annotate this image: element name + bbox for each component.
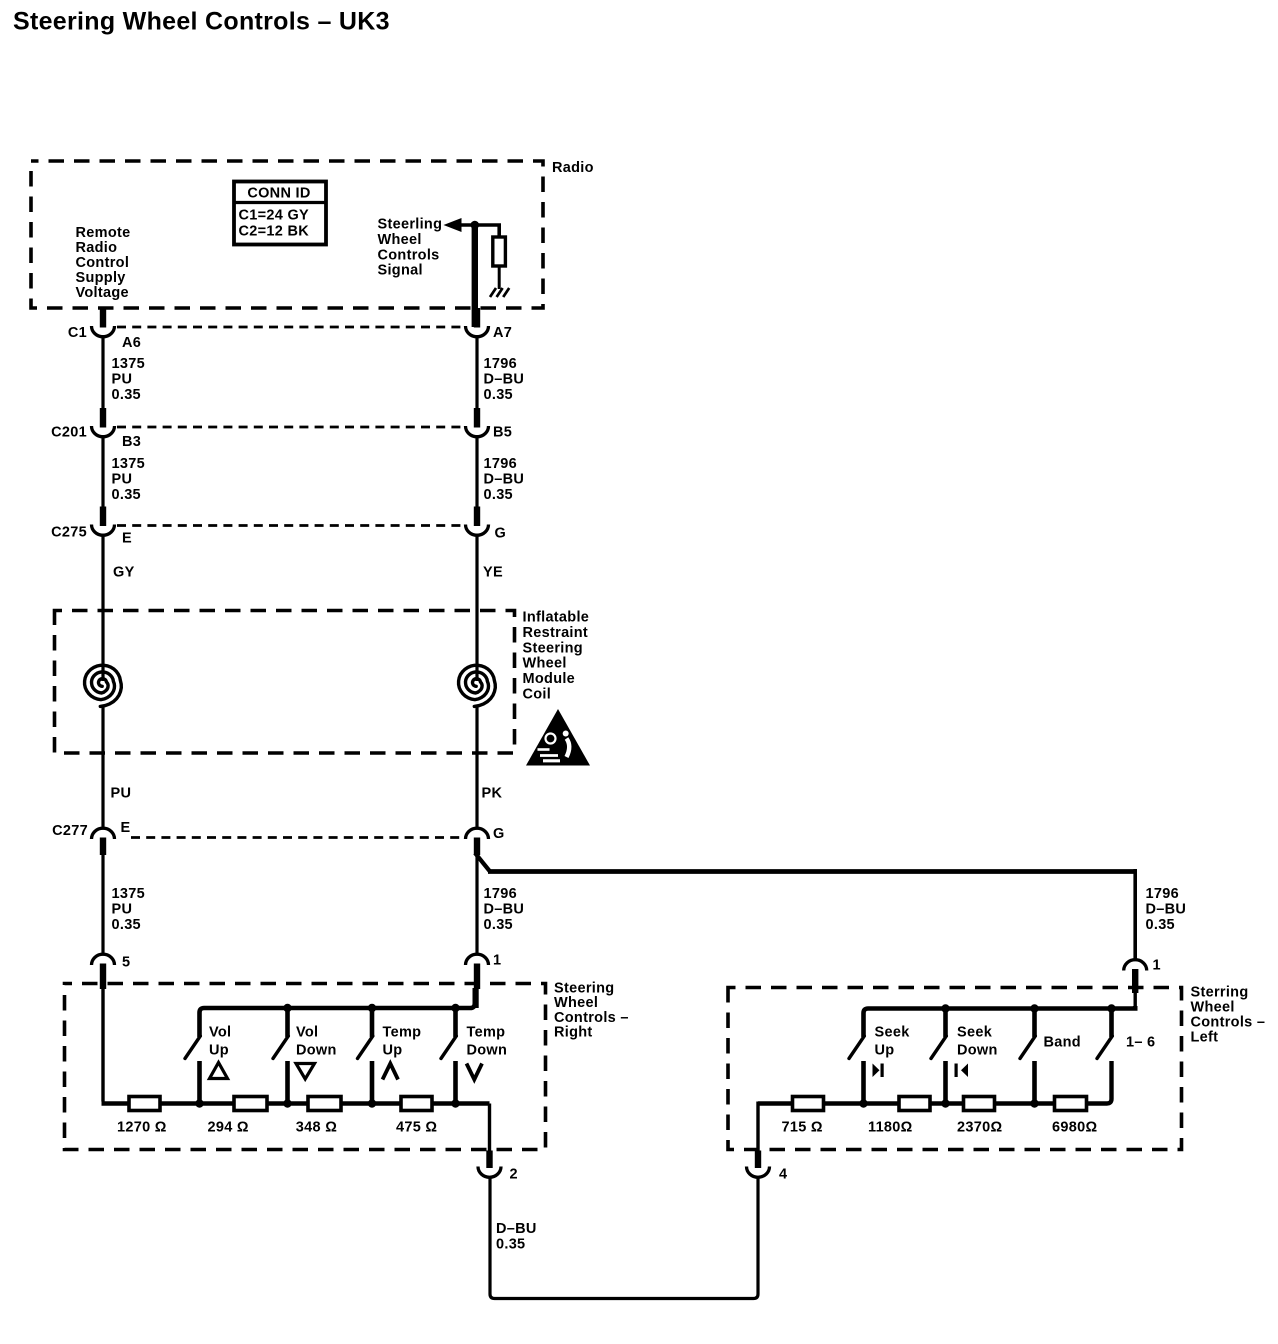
svg-text:0.35: 0.35: [484, 387, 513, 403]
svg-text:PU: PU: [111, 786, 132, 802]
svg-text:Module: Module: [523, 671, 576, 687]
svg-text:A6: A6: [122, 335, 141, 351]
svg-text:294 Ω: 294 Ω: [208, 1120, 249, 1136]
svg-text:GY: GY: [113, 565, 135, 581]
svg-text:Steering: Steering: [554, 981, 614, 997]
svg-text:348 Ω: 348 Ω: [296, 1120, 337, 1136]
svg-text:Wheel: Wheel: [523, 656, 567, 672]
svg-text:Down: Down: [957, 1043, 998, 1059]
svg-text:Up: Up: [875, 1043, 895, 1059]
svg-text:CONN ID: CONN ID: [247, 186, 310, 202]
svg-text:6980Ω: 6980Ω: [1052, 1120, 1097, 1136]
svg-text:D–BU: D–BU: [484, 472, 525, 488]
svg-text:PK: PK: [482, 786, 503, 802]
svg-text:Voltage: Voltage: [76, 285, 129, 301]
svg-text:D–BU: D–BU: [484, 372, 525, 388]
svg-text:0.35: 0.35: [112, 387, 141, 403]
svg-text:Radio: Radio: [552, 160, 594, 176]
svg-text:Temp: Temp: [467, 1025, 506, 1041]
svg-text:1: 1: [493, 953, 501, 969]
svg-text:Supply: Supply: [76, 270, 126, 286]
svg-text:D–BU: D–BU: [1146, 902, 1187, 918]
svg-text:0.35: 0.35: [112, 487, 141, 503]
svg-text:1796: 1796: [484, 356, 517, 372]
svg-text:B5: B5: [493, 425, 512, 441]
svg-text:C1=24 GY: C1=24 GY: [239, 208, 310, 224]
svg-text:E: E: [121, 820, 131, 836]
svg-text:Controls –: Controls –: [554, 1010, 629, 1026]
svg-text:1375: 1375: [112, 356, 145, 372]
svg-text:Restraint: Restraint: [523, 625, 589, 641]
svg-text:G: G: [495, 526, 507, 542]
svg-text:A7: A7: [493, 325, 512, 341]
svg-text:1270 Ω: 1270 Ω: [117, 1120, 167, 1136]
svg-text:Seek: Seek: [875, 1025, 911, 1041]
svg-text:C201: C201: [51, 425, 87, 441]
svg-text:Controls –: Controls –: [1191, 1015, 1266, 1031]
svg-text:Sterring: Sterring: [1191, 985, 1249, 1001]
svg-text:1375: 1375: [112, 456, 145, 472]
svg-text:0.35: 0.35: [1146, 917, 1175, 933]
svg-text:1375: 1375: [112, 886, 145, 902]
svg-text:1796: 1796: [1146, 886, 1179, 902]
svg-text:1796: 1796: [484, 886, 517, 902]
svg-text:PU: PU: [112, 472, 133, 488]
svg-text:Wheel: Wheel: [554, 995, 598, 1011]
svg-text:1: 1: [1153, 958, 1161, 974]
svg-text:Steering Wheel Controls – UK3: Steering Wheel Controls – UK3: [13, 8, 390, 36]
svg-text:YE: YE: [483, 565, 503, 581]
svg-text:5: 5: [122, 955, 130, 971]
svg-text:Up: Up: [383, 1043, 403, 1059]
svg-text:C2=12 BK: C2=12 BK: [239, 224, 310, 240]
svg-text:Steering: Steering: [523, 640, 583, 656]
svg-text:0.35: 0.35: [112, 917, 141, 933]
svg-text:Down: Down: [296, 1043, 337, 1059]
svg-text:1796: 1796: [484, 456, 517, 472]
svg-text:D–BU: D–BU: [484, 902, 525, 918]
svg-text:0.35: 0.35: [484, 487, 513, 503]
svg-text:Wheel: Wheel: [1191, 1000, 1235, 1016]
svg-text:475 Ω: 475 Ω: [396, 1120, 437, 1136]
svg-text:E: E: [122, 531, 132, 547]
svg-text:Controls: Controls: [378, 247, 440, 263]
svg-text:PU: PU: [112, 372, 133, 388]
svg-text:Down: Down: [467, 1043, 508, 1059]
svg-text:Up: Up: [209, 1043, 229, 1059]
svg-text:Remote: Remote: [76, 225, 131, 241]
svg-text:Wheel: Wheel: [378, 232, 422, 248]
svg-text:C277: C277: [52, 823, 88, 839]
svg-text:C1: C1: [68, 325, 87, 341]
svg-text:1– 6: 1– 6: [1126, 1035, 1155, 1051]
svg-text:1180Ω: 1180Ω: [868, 1120, 913, 1136]
svg-text:715 Ω: 715 Ω: [782, 1120, 823, 1136]
svg-text:C275: C275: [51, 525, 87, 541]
svg-text:G: G: [493, 826, 505, 842]
svg-text:Radio: Radio: [76, 240, 118, 256]
svg-text:PU: PU: [112, 902, 133, 918]
svg-text:Control: Control: [76, 255, 130, 271]
svg-text:Band: Band: [1044, 1035, 1081, 1051]
svg-text:Left: Left: [1191, 1030, 1219, 1046]
svg-text:Right: Right: [554, 1025, 593, 1041]
svg-text:0.35: 0.35: [484, 917, 513, 933]
svg-text:Vol: Vol: [296, 1025, 318, 1041]
svg-text:4: 4: [779, 1167, 787, 1183]
svg-text:Steerling: Steerling: [378, 217, 443, 233]
svg-text:Seek: Seek: [957, 1025, 993, 1041]
svg-text:Temp: Temp: [383, 1025, 422, 1041]
svg-text:2370Ω: 2370Ω: [957, 1120, 1002, 1136]
svg-text:Coil: Coil: [523, 687, 552, 703]
svg-text:2: 2: [510, 1167, 518, 1183]
svg-text:Signal: Signal: [378, 263, 423, 279]
svg-text:Inflatable: Inflatable: [523, 610, 590, 626]
svg-text:0.35: 0.35: [496, 1237, 525, 1253]
svg-text:D–BU: D–BU: [496, 1221, 537, 1237]
svg-text:B3: B3: [122, 434, 141, 450]
svg-text:Vol: Vol: [209, 1025, 231, 1041]
